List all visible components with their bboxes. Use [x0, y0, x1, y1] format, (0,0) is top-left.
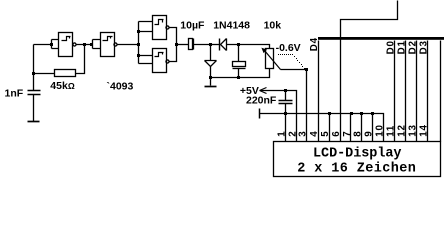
svg-text:13: 13: [408, 124, 419, 137]
junction dot at U1A input: [50, 43, 53, 46]
svg-text:D2: D2: [408, 40, 419, 54]
capacitor C4 220nF: [285, 91, 287, 101]
svg-text:3: 3: [297, 131, 308, 137]
wire: ground row to pin 10: [260, 114, 384, 142]
junction dot U1D upper input: [137, 54, 140, 57]
wire: pin 5 line: [329, 114, 331, 142]
svg-text:14: 14: [418, 124, 429, 137]
data bus (thick): [318, 37, 444, 40]
junction dot pin8: [360, 112, 363, 115]
svg-text:D3: D3: [418, 40, 429, 54]
ground (below C1): [28, 121, 40, 123]
wire: wiper to pin 3 drop: [281, 69, 307, 71]
gate U1D body: [153, 49, 167, 73]
P1 wiper arrow: [265, 51, 281, 70]
wire: U1C output to join: [169, 28, 177, 45]
wire: U1D output to join: [169, 45, 177, 62]
junction dot buffer outputs joined: [175, 43, 178, 46]
junction dot at feedback tap: [83, 43, 86, 46]
junction dot negative rail: [209, 76, 212, 79]
svg-text:1N4148: 1N4148: [213, 20, 250, 32]
svg-text:`4093: `4093: [107, 81, 134, 93]
svg-text:D0: D0: [386, 40, 397, 54]
U1C hysteresis glyph: [155, 20, 164, 25]
gate U1A body: [59, 33, 73, 57]
U1A output bubble: [73, 43, 76, 46]
svg-text:45kΩ: 45kΩ: [50, 80, 75, 92]
svg-text:2 x 16 Zeichen: 2 x 16 Zeichen: [297, 162, 416, 177]
junction dot input bus mid: [137, 43, 140, 46]
wire: +5V to pin 2: [261, 91, 297, 142]
wire: D2 to pot top corner: [227, 45, 270, 49]
wire: node A vertical (osc RC node): [33, 45, 35, 91]
svg-text:9: 9: [364, 131, 375, 137]
capacitor C1 1nF: [28, 91, 41, 95]
LCD module box: [274, 142, 441, 177]
junction dot at U1B input: [90, 43, 93, 46]
junction dot node B: [209, 43, 212, 46]
wire: D3 branch to pin 14: [427, 41, 429, 142]
wire: pin 7 line: [350, 114, 352, 142]
wire: D1 branch to pin 12: [405, 41, 407, 142]
svg-text:5: 5: [320, 131, 331, 137]
callout dotted leader to wiper node: [278, 54, 305, 69]
diode D2 1N4148 (series): [219, 39, 221, 51]
wire: buffer input vertical bus: [138, 22, 140, 64]
wire: U1A output to U1B input: [76, 44, 93, 46]
wire: D4 branch to pin 4: [318, 41, 320, 142]
wire: pin 3 line (Vo): [306, 70, 308, 142]
junction dot C4 top: [284, 89, 287, 92]
svg-text:11: 11: [386, 125, 397, 137]
svg-text:D4: D4: [309, 37, 320, 51]
diode D1 (clamp, node B to ground): [210, 45, 212, 61]
+5V arrow: [260, 88, 267, 94]
svg-text:10k: 10k: [264, 20, 282, 32]
gate U1B body: [101, 33, 115, 57]
svg-text:6: 6: [331, 131, 342, 137]
wire: join to C2: [177, 44, 189, 46]
capacitor C3 (filter): [238, 45, 240, 62]
U1B output bubble: [114, 43, 117, 46]
wire: U1B output to buffer input bus: [118, 44, 139, 46]
gate U1A (4093 Schmitt NAND) input loop: [52, 40, 59, 49]
gate U1C body: [153, 16, 167, 40]
wire: pin 9 line: [372, 114, 374, 142]
svg-text:220nF: 220nF: [246, 95, 277, 107]
junction dot pin1/C4: [284, 112, 287, 115]
wire: U1C input stubs: [139, 22, 153, 32]
svg-text:12: 12: [397, 124, 408, 137]
svg-text:4: 4: [309, 131, 320, 137]
resistor R1 45k body: [55, 70, 76, 77]
wire: node A to gate U1A input: [34, 44, 52, 46]
ground bar (left end of ground row): [259, 109, 261, 119]
junction dot pin9: [371, 112, 374, 115]
wire: strobe line to pin 6: [341, 1, 398, 142]
wire: C2 to node B: [194, 44, 211, 46]
svg-text:7: 7: [342, 131, 353, 137]
U1C output bubble: [166, 26, 169, 29]
svg-text:1: 1: [276, 131, 287, 137]
wire: D2 branch to pin 13: [416, 41, 418, 142]
svg-text:10: 10: [375, 124, 386, 137]
wire: pin 8 line: [361, 114, 363, 142]
wire: pin 1 line: [285, 114, 287, 142]
svg-text:-0.6V: -0.6V: [276, 42, 301, 54]
wire: R1 left lead to node A: [34, 73, 55, 75]
svg-text:8: 8: [353, 131, 364, 137]
node A junction dot: [32, 72, 35, 75]
svg-text:D1: D1: [397, 40, 408, 54]
wire: D0 branch to pin 11: [394, 41, 396, 142]
svg-text:1nF: 1nF: [5, 87, 24, 99]
wire: bus end drop at right: [440, 41, 442, 142]
wire: C1 to ground: [33, 95, 35, 122]
svg-text:10µF: 10µF: [180, 20, 205, 32]
U1B hysteresis glyph: [103, 37, 113, 41]
junction dot wiper node: [305, 68, 308, 71]
potentiometer P1 10k body: [266, 49, 274, 69]
junction dot C3 tap: [237, 43, 240, 46]
ground (below D1): [205, 86, 217, 88]
junction dot U1C lower input: [137, 30, 140, 33]
junction dot pin7: [350, 112, 353, 115]
wire: negative rail row to pot bottom: [211, 69, 270, 78]
U1D hysteresis glyph: [155, 53, 164, 57]
wire: node B to D2: [211, 44, 220, 46]
wire: U1D input stubs: [139, 56, 153, 64]
wire: feedback down from U1A output: [76, 45, 85, 74]
capacitor C2 10uF (pump): [189, 39, 193, 50]
junction dot pin5: [328, 112, 331, 115]
U1D output bubble: [166, 60, 169, 63]
svg-text:LCD-Display: LCD-Display: [313, 146, 402, 161]
gate U1B input loop: [93, 40, 101, 49]
U1A hysteresis glyph: [62, 37, 71, 41]
junction dot C3 bottom: [237, 76, 240, 79]
